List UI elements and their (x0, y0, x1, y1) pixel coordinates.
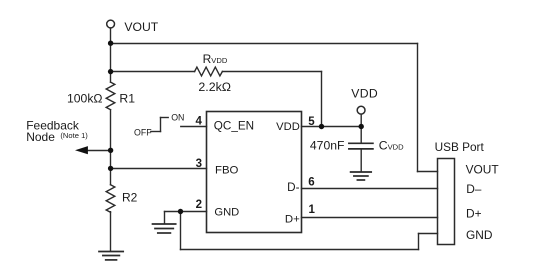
svg-text:2.2kΩ: 2.2kΩ (198, 80, 231, 94)
svg-text:1: 1 (309, 204, 316, 216)
wire corner down to VDD pin (321, 72, 323, 127)
wire VOUT top horizontal (111, 43, 418, 45)
svg-text:GND: GND (466, 228, 493, 242)
junction node VOUT top (108, 41, 113, 46)
IC U1 body (207, 112, 302, 233)
capacitor CVDD bottom lead (360, 150, 362, 172)
svg-text:USB Port: USB Port (435, 140, 485, 154)
wire VOUT vertical (110, 28, 112, 82)
svg-text:100kΩ: 100kΩ (67, 92, 103, 106)
ground G3 below CVDD (351, 172, 372, 180)
wire bottom ground run (181, 249, 419, 251)
switch OFF level line (151, 131, 161, 133)
svg-text:2: 2 (196, 199, 202, 211)
wire into USB VOUT pin (418, 171, 438, 173)
capacitor CVDD plates (349, 143, 373, 149)
junction node pin2/ground (178, 209, 183, 214)
wire pin 1 D+ (302, 217, 438, 219)
wire FBO (111, 168, 207, 170)
svg-text:3: 3 (196, 158, 202, 170)
wire RVDD to corner (222, 71, 321, 73)
wire pin2 junction down (180, 212, 182, 250)
terminal VOUT (107, 20, 115, 28)
switch rising edge (160, 118, 162, 132)
resistor R1 (106, 82, 115, 110)
capacitor CVDD top lead (360, 127, 362, 143)
svg-text:QC_EN: QC_EN (214, 120, 254, 133)
junction node feedback (108, 148, 113, 153)
junction node pin5/RVDD (319, 124, 324, 129)
ground G2 at IC GND pin (153, 224, 176, 233)
svg-text:D+: D+ (285, 214, 300, 226)
svg-text:VOUT: VOUT (124, 20, 158, 34)
wire VDD terminal stub (360, 114, 362, 126)
svg-text:OFF: OFF (134, 127, 152, 137)
wire R1 to R2 (110, 110, 112, 185)
svg-text:5: 5 (308, 116, 315, 128)
wire pin2 to ground stub (164, 212, 166, 224)
switch ON level line (161, 117, 169, 119)
svg-text:D-: D- (287, 181, 299, 194)
svg-text:D–: D– (466, 182, 482, 196)
svg-text:ON: ON (171, 113, 184, 123)
svg-text:D+: D+ (466, 207, 482, 221)
feedback arrow wire (84, 150, 111, 152)
wire pin 6 D- (302, 188, 438, 190)
wire node to RVDD (111, 71, 195, 73)
wire into USB GND pin (419, 233, 438, 235)
junction node VDD/cap (359, 124, 364, 129)
USB Port connector body (438, 159, 455, 245)
svg-text:(Note 1): (Note 1) (60, 131, 88, 140)
svg-text:VDD: VDD (276, 121, 300, 133)
svg-text:VDD: VDD (351, 87, 378, 101)
junction node FBO (108, 166, 113, 171)
wire pin 5 VDD (302, 126, 362, 128)
wire pin 4 QC_EN (181, 126, 207, 128)
svg-text:Node: Node (26, 130, 55, 144)
wire R2 to ground (110, 212, 112, 252)
terminal VDD (357, 106, 365, 114)
svg-text:R1: R1 (119, 92, 135, 106)
svg-text:GND: GND (214, 206, 239, 218)
svg-text:470nF: 470nF (310, 138, 345, 152)
junction node RVDD branch (108, 69, 113, 74)
ground G1 below R2 (99, 252, 123, 260)
wire right vertical to USB (417, 44, 419, 172)
svg-text:VOUT: VOUT (466, 162, 499, 176)
svg-text:4: 4 (195, 115, 202, 127)
resistor RVDD (195, 67, 223, 76)
svg-text:6: 6 (308, 177, 314, 189)
wire pin 2 GND (165, 211, 207, 213)
svg-text:FBO: FBO (215, 165, 239, 177)
wire bottom up to USB GND (418, 234, 420, 250)
resistor R2 (106, 185, 115, 213)
svg-text:R2: R2 (122, 191, 138, 205)
feedback arrow head (75, 146, 88, 154)
